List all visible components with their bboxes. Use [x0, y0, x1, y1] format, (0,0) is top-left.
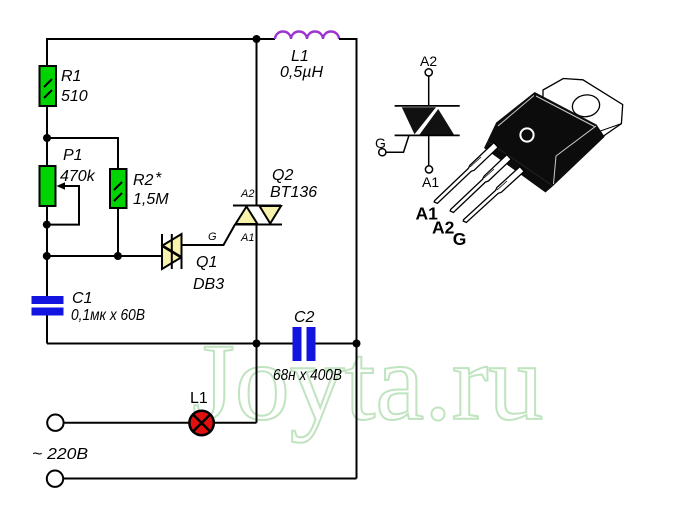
- wire coil to right corner: [339, 38, 357, 40]
- wire left vertical top: [46, 38, 48, 66]
- triac symbol left triangle: [402, 107, 436, 134]
- package edge highlights: [498, 96, 596, 185]
- wire right vertical: [356, 38, 358, 479]
- node junction right: [353, 340, 361, 348]
- wire lamp horizontal: [64, 422, 257, 424]
- node junction triac-lamp: [253, 340, 261, 348]
- svg-text:G: G: [208, 231, 217, 243]
- terminal G circle: [379, 149, 386, 156]
- package leg creases: [470, 157, 507, 190]
- svg-text:~ 220В: ~ 220В: [32, 446, 88, 463]
- P1 wiper arrow: [57, 182, 66, 190]
- triac symbol right triangle: [420, 109, 455, 135]
- svg-text:A1: A1: [240, 232, 254, 244]
- package front hole mark: [520, 128, 533, 141]
- package metal tab: [543, 79, 623, 143]
- package leg stubs: [484, 141, 553, 193]
- wire left vertical below C1: [46, 316, 48, 344]
- triac Q2: [233, 206, 282, 225]
- diac Q1: [162, 234, 182, 269]
- svg-text:68н x 400В: 68н x 400В: [273, 367, 342, 384]
- svg-text:A2: A2: [240, 188, 254, 200]
- svg-text:L1: L1: [190, 390, 208, 407]
- wire lamp vertical: [256, 344, 258, 423]
- package leg G: [463, 167, 524, 223]
- svg-text:A2: A2: [432, 218, 455, 238]
- wire bottom of upper loop: [47, 343, 293, 345]
- wire triac A1 vertical: [256, 225, 258, 344]
- package tab hole: [571, 93, 602, 119]
- svg-text:0,5µH: 0,5µH: [280, 64, 323, 81]
- wire to R2 top: [47, 138, 118, 169]
- svg-text:*: *: [155, 170, 162, 187]
- lamp L1: [189, 411, 213, 435]
- node junction top (triac branch): [253, 35, 261, 43]
- svg-text:R1: R1: [61, 68, 81, 85]
- node junction R2 on wire y256: [114, 252, 122, 260]
- potentiometer P1: [40, 166, 56, 206]
- svg-text:DB3: DB3: [193, 276, 224, 293]
- svg-text:A2: A2: [420, 53, 437, 69]
- svg-text:Q2: Q2: [272, 167, 293, 184]
- triac symbol bottom bar: [395, 134, 460, 136]
- wire R2 bottom: [117, 208, 119, 256]
- resistor R1: [40, 66, 57, 106]
- triac symbol top bar: [395, 105, 460, 107]
- package leg A1: [434, 143, 498, 204]
- svg-text:A1: A1: [422, 174, 439, 190]
- package black body: [487, 92, 604, 186]
- svg-text:470k: 470k: [60, 168, 96, 185]
- wire C2 right: [316, 343, 357, 345]
- svg-text:R2: R2: [133, 172, 154, 189]
- terminal upper: [47, 415, 63, 431]
- svg-text:Joyta.ru: Joyta.ru: [192, 321, 543, 443]
- wire A1 lead: [428, 135, 430, 165]
- svg-text:510: 510: [61, 88, 88, 105]
- wire horizontal to diac: [47, 255, 162, 257]
- wire diac to gate: [182, 225, 236, 246]
- svg-text:L1: L1: [291, 48, 309, 65]
- terminal A1 circle: [425, 166, 432, 173]
- svg-text:C2: C2: [294, 309, 315, 326]
- wire top horizontal: [47, 38, 257, 40]
- wire bottom: [63, 478, 356, 480]
- wire junction to coil: [257, 38, 276, 40]
- svg-text:Q1: Q1: [196, 254, 217, 271]
- svg-text:1,5M: 1,5M: [133, 191, 169, 208]
- capacitor C2: [293, 327, 302, 361]
- capacitor C1: [32, 296, 64, 304]
- terminal A2 circle: [425, 69, 432, 76]
- terminal lower: [47, 471, 63, 487]
- wire P1 wiper loop: [49, 186, 79, 225]
- node junction left on wire y256: [43, 252, 51, 260]
- node P1 wiper junction: [43, 221, 51, 229]
- wire left vertical mid: [46, 106, 48, 296]
- resistor R2: [110, 169, 127, 208]
- wire triac A2 vertical: [256, 39, 258, 206]
- svg-text:C1: C1: [72, 290, 92, 307]
- wire G lead: [386, 135, 409, 152]
- package leg A2: [450, 155, 511, 213]
- svg-text:P1: P1: [63, 147, 83, 164]
- svg-text:G: G: [453, 229, 467, 249]
- package tab thickness edge: [599, 124, 621, 132]
- node junction R1/P1/R2: [43, 134, 51, 142]
- svg-text:0,1мк x 60В: 0,1мк x 60В: [71, 307, 145, 324]
- svg-text:BT136: BT136: [270, 184, 317, 201]
- wire A2 lead: [428, 76, 430, 106]
- inductor L1 coil: [275, 32, 339, 39]
